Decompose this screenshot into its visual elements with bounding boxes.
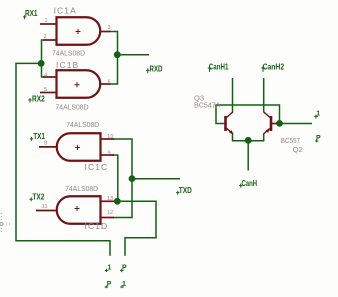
svg-text:RX2: RX2 <box>32 95 45 104</box>
svg-text:2: 2 <box>44 34 47 40</box>
svg-text:8: 8 <box>44 141 47 147</box>
svg-text:9: 9 <box>108 150 111 156</box>
svg-text:74ALS08D: 74ALS08D <box>65 184 98 193</box>
svg-text:4: 4 <box>44 72 47 78</box>
svg-text:5: 5 <box>44 87 47 93</box>
svg-text:CanH1: CanH1 <box>209 63 229 72</box>
svg-text:IC1C: IC1C <box>85 162 109 172</box>
svg-text:RX1: RX1 <box>25 9 38 18</box>
svg-text:1: 1 <box>45 18 48 24</box>
svg-text:TX2: TX2 <box>33 193 45 202</box>
svg-text:TXD: TXD <box>179 186 192 195</box>
svg-text:3: 3 <box>108 25 111 31</box>
svg-text:74ALS08D: 74ALS08D <box>52 48 85 57</box>
svg-text:CanH2: CanH2 <box>263 63 285 72</box>
svg-text:CanH: CanH <box>242 179 258 188</box>
svg-text:IC1B: IC1B <box>56 60 79 70</box>
svg-text:Q2: Q2 <box>293 145 303 154</box>
svg-text:74ALS08D: 74ALS08D <box>56 103 89 112</box>
svg-text:10: 10 <box>107 134 113 140</box>
svg-text:IC1D: IC1D <box>85 221 109 231</box>
svg-text:BC547A: BC547A <box>194 101 221 110</box>
svg-text:IC1A: IC1A <box>54 6 77 16</box>
svg-text:74ALS08D: 74ALS08D <box>66 120 99 129</box>
svg-text:11: 11 <box>42 204 48 210</box>
svg-text:BC557: BC557 <box>281 136 301 145</box>
svg-text:TX1: TX1 <box>33 132 45 141</box>
svg-text:12: 12 <box>107 210 113 216</box>
svg-text:RXD: RXD <box>150 65 163 74</box>
svg-text:6: 6 <box>108 79 111 85</box>
svg-text:13: 13 <box>107 196 113 202</box>
